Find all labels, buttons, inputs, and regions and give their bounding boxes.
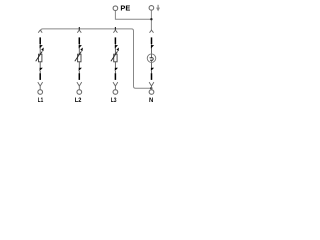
svg-text:PE: PE xyxy=(120,4,130,13)
svg-text:L1: L1 xyxy=(38,97,44,104)
svg-text:N: N xyxy=(149,97,153,104)
svg-text:L2: L2 xyxy=(75,97,82,104)
svg-text:L3: L3 xyxy=(111,97,117,104)
